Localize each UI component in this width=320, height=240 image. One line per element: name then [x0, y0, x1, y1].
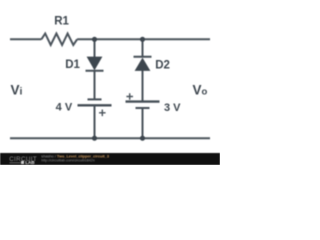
svg-text:4 V: 4 V [56, 102, 73, 114]
svg-text:D1: D1 [65, 59, 80, 71]
svg-text:3 V: 3 V [164, 102, 181, 114]
battery V1 plates [78, 99, 112, 105]
wire D2 cathode top [142, 39, 144, 57]
watermark footer bar [0, 153, 220, 165]
wire bottom [10, 137, 210, 139]
battery V2 plates [126, 102, 160, 108]
svg-text:R1: R1 [54, 16, 69, 28]
svg-text:D2: D2 [155, 59, 170, 71]
wire D1 cathode to battery V1 [94, 71, 96, 99]
wire top-left lead [10, 38, 41, 40]
diode D2 [134, 57, 152, 71]
resistor R1 [41, 34, 77, 46]
diode D1 [86, 57, 104, 71]
wire battery V1 to bottom [94, 105, 96, 138]
circuitlab logo [9, 156, 37, 165]
wire D2 anode to battery V2 [142, 70, 144, 102]
svg-text:Vi: Vi [11, 82, 23, 97]
battery V1 plus sign [99, 110, 106, 117]
wire D1 anode [94, 39, 96, 57]
wire battery V2 to bottom [142, 108, 144, 138]
node junction top D2 [140, 37, 145, 42]
node junction bottom D2 [140, 136, 145, 141]
wire top-middle [77, 38, 210, 40]
node junction bottom D1 [92, 136, 97, 141]
svg-text:http://circuitlab.com/circuit/: http://circuitlab.com/circuit/c842n [41, 159, 95, 163]
battery V2 plus sign [126, 93, 133, 99]
node junction top D1 [92, 37, 97, 42]
svg-text:Vo: Vo [193, 82, 208, 97]
svg-text:LAB: LAB [25, 160, 35, 165]
